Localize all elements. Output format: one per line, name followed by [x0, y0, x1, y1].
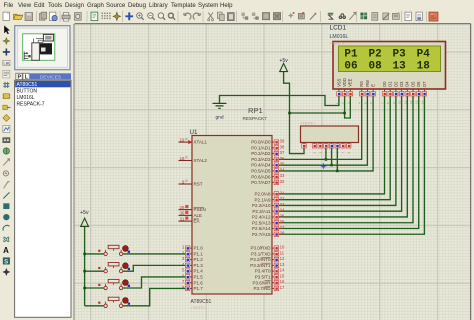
wire: +5v branch to LCD VDD: [290, 96, 345, 113]
svg-text:P1.6: P1.6: [194, 280, 204, 285]
svg-text:18: 18: [180, 156, 185, 161]
push button 1: [85, 253, 104, 255]
svg-text:P2.2/A10: P2.2/A10: [252, 203, 271, 208]
U1 pin 30 (ALE): [179, 214, 193, 216]
U1 pin 14 (P3.4/T0): [272, 270, 274, 272]
svg-text:33: 33: [280, 173, 285, 178]
svg-text:D0: D0: [382, 81, 387, 87]
svg-text:A: A: [3, 246, 9, 255]
svg-text:10: 10: [398, 100, 402, 104]
svg-text:39: 39: [280, 139, 285, 144]
svg-text:P2.5/A13: P2.5/A13: [252, 220, 271, 225]
RP1 pin 2: [314, 143, 316, 144]
svg-text:P3.2/INT0: P3.2/INT0: [250, 257, 271, 262]
svg-text:14: 14: [420, 100, 424, 104]
svg-text:P3.3/INT1: P3.3/INT1: [250, 263, 271, 268]
wire: button 2 to P1 pin: [123, 265, 185, 271]
junctions on +5v button rail: [83, 253, 86, 256]
svg-text:21: 21: [280, 190, 285, 195]
U1 pin 9 (RST): [179, 183, 193, 185]
svg-text:+5v: +5v: [80, 210, 89, 216]
wire: P0.5 to LCD E: [278, 96, 374, 171]
U1 pin 29 (PSEN): [179, 209, 193, 211]
wire: P2.4 to LCD D4: [278, 96, 408, 217]
svg-text:D1: D1: [388, 81, 393, 87]
svg-text:P3.5/T1: P3.5/T1: [255, 275, 271, 280]
sheet origin marker (blue cross): [321, 163, 327, 169]
L button: [23, 73, 29, 79]
wire: P2.6 to LCD D6: [278, 96, 419, 229]
svg-text:VEE: VEE: [348, 78, 353, 86]
wire: +5v rail for buttons: [84, 226, 86, 305]
svg-text:LCD1: LCD1: [330, 25, 347, 32]
wire: branch VDD node to LCD VEE: [345, 96, 351, 118]
svg-text:P0.5/AD5: P0.5/AD5: [251, 169, 271, 174]
wire: gnd to LCD VSS: [220, 96, 339, 106]
U1 pin 18 (XTAL2): [179, 160, 193, 162]
overview: mini MCU: [32, 43, 40, 61]
svg-text:RESPACK7: RESPACK7: [243, 116, 268, 121]
toolbar: undo, redo: [184, 13, 191, 19]
U1 pin 22 (P2.1/A9): [272, 199, 274, 201]
svg-text:D3: D3: [399, 81, 404, 87]
U1 pin 15 (P3.5/T1): [272, 276, 274, 278]
wire: button 1 to P1.1: [123, 253, 185, 255]
svg-text:D6: D6: [416, 81, 421, 87]
push button 4: [85, 305, 104, 307]
RP1 pin 1: [303, 143, 305, 144]
svg-text:P0.6/AD6: P0.6/AD6: [251, 174, 271, 179]
svg-text:P1.7: P1.7: [194, 286, 204, 291]
U1 pin 10 (P3.0/RXD): [272, 247, 274, 249]
svg-text:XTAL1: XTAL1: [194, 140, 208, 145]
svg-text:P3.0/RXD: P3.0/RXD: [250, 246, 271, 251]
svg-text:<TEXT>: <TEXT>: [300, 121, 316, 126]
svg-text:LBL: LBL: [3, 61, 11, 66]
svg-text:27: 27: [280, 225, 285, 230]
svg-text:VSS: VSS: [336, 78, 341, 86]
overview: mini respack + wires: [34, 39, 44, 44]
overview (world view) window: [15, 26, 70, 70]
svg-text:13: 13: [280, 262, 285, 267]
svg-text:11: 11: [280, 250, 285, 255]
svg-text:RESPACK-7: RESPACK-7: [17, 102, 45, 108]
svg-text:BUTTON: BUTTON: [17, 89, 38, 95]
toolbar: cut, copy, paste: [208, 13, 214, 21]
svg-text:D5: D5: [410, 81, 415, 87]
U1 pin 28 (P2.7/A15): [272, 233, 274, 235]
RP1 pin 6: [336, 143, 338, 144]
svg-text:16: 16: [280, 279, 285, 284]
junction: VDD / VEE branch: [343, 112, 346, 115]
toolbar: ARES netlist (orange): [429, 12, 438, 21]
svg-text:P: P: [18, 75, 22, 81]
U1 pin 35 (P0.4/AD4): [272, 164, 274, 166]
U1 pin 1 (P1.0): [190, 247, 192, 249]
overview: mini wiring block (dark): [40, 43, 52, 54]
svg-text:D4: D4: [405, 81, 410, 87]
wire: P2.0 to LCD D0: [278, 96, 385, 194]
RP1 pin 3: [319, 143, 321, 144]
svg-text:15: 15: [280, 273, 285, 278]
svg-text:14: 14: [280, 268, 285, 273]
ground terminal gnd: [213, 103, 227, 108]
svg-text:13: 13: [415, 100, 419, 104]
svg-text:RP1: RP1: [248, 106, 263, 115]
svg-text:E: E: [371, 84, 376, 87]
RP1 pin 8: [348, 143, 350, 144]
svg-text:FileViewEditToolsDesignGraphSo: FileViewEditToolsDesignGraphSourceDebugL…: [4, 2, 234, 9]
svg-text:38: 38: [280, 144, 285, 149]
U1 pin 39 (P0.0/AD0): [272, 141, 274, 143]
svg-text:P0.0/AD0: P0.0/AD0: [251, 140, 271, 145]
wire: P2.2 to LCD D2: [278, 96, 396, 205]
wire: RP1 pin5 pullup tap to RW line: [331, 148, 333, 165]
svg-text:P1.4: P1.4: [194, 269, 204, 274]
svg-text:P1.3: P1.3: [194, 263, 204, 268]
svg-text:RS: RS: [359, 81, 364, 87]
U1 pin 36 (P0.3/AD3): [272, 158, 274, 160]
overview: mini buttons: [24, 52, 28, 60]
svg-text:26: 26: [280, 219, 285, 224]
wire: P0.3 to LCD RS: [278, 96, 362, 159]
toolbar: wire autorouter, search tag: [328, 13, 334, 19]
wire: P0.4 to LCD RW: [278, 96, 368, 165]
U1 pin 37 (P0.2/AD2): [272, 153, 274, 155]
svg-text:P2.1/A9: P2.1/A9: [254, 197, 271, 202]
wire: button 4 to P1 pin: [123, 288, 185, 305]
U1 pin 21 (P2.0/A8): [272, 193, 274, 195]
svg-text:30: 30: [180, 211, 185, 216]
svg-text:P0.4/AD4: P0.4/AD4: [251, 163, 271, 168]
U1 pin 4 (P1.3): [190, 264, 192, 266]
svg-text:S: S: [4, 258, 8, 265]
svg-text:28: 28: [280, 231, 285, 236]
svg-text:P3.1/TXD: P3.1/TXD: [251, 251, 271, 256]
svg-text:22: 22: [280, 196, 285, 201]
LCD screen: [339, 46, 441, 72]
svg-text:35: 35: [280, 162, 285, 167]
svg-text:EA: EA: [194, 219, 200, 224]
svg-text:DEVICES: DEVICES: [40, 74, 61, 80]
svg-text:P2.6/A14: P2.6/A14: [252, 226, 271, 231]
U1 pin 2 (P1.1): [190, 253, 192, 255]
svg-text:29: 29: [180, 205, 185, 210]
svg-text:RST: RST: [194, 182, 203, 187]
svg-text:LM016L: LM016L: [330, 34, 349, 40]
svg-text:17: 17: [280, 285, 285, 290]
RP1 pin 7: [342, 143, 344, 144]
svg-text:P0.3/AD3: P0.3/AD3: [251, 157, 271, 162]
U1 pin 6 (P1.5): [190, 276, 192, 278]
svg-text:P1.0: P1.0: [194, 246, 204, 251]
svg-text:P0.1/AD1: P0.1/AD1: [251, 145, 271, 150]
svg-text:11: 11: [403, 101, 407, 104]
U1 pin 33 (P0.6/AD6): [272, 176, 274, 178]
toolbar: sheet, grid toggle: [91, 12, 98, 21]
microcontroller U1 AT89C51 body: [192, 136, 272, 295]
svg-text:12: 12: [280, 256, 285, 261]
toolbar: [0, 10, 474, 24]
toolbar: design explorer, new sheet, remove sheet, notes: [360, 13, 367, 20]
svg-text:AT89C51: AT89C51: [17, 82, 38, 88]
U1 pin 8 (P1.7): [190, 287, 192, 289]
wire: P2.1 to LCD D1: [278, 96, 391, 200]
svg-text:34: 34: [280, 167, 285, 172]
svg-text:P1.2: P1.2: [194, 257, 204, 262]
U1 pin 23 (P2.2/A10): [272, 204, 274, 206]
U1 pin 31 (EA): [179, 220, 193, 222]
svg-text:P2.0/A8: P2.0/A8: [254, 192, 271, 197]
wire: button 3 to P1 pin: [123, 277, 185, 288]
svg-text:25: 25: [280, 213, 285, 218]
wire: +5v stem down to VDD junction and RP1 common: [284, 72, 304, 154]
U1 pin 38 (P0.1/AD1): [272, 147, 274, 149]
DEVICES header bar: [30, 73, 71, 79]
U1 pin 16 (P3.6/WR): [272, 282, 274, 284]
left tool palette: [4, 26, 10, 35]
toolbar: new, open, save: [3, 12, 9, 21]
svg-text:P0.7/AD7: P0.7/AD7: [251, 180, 271, 185]
U1 pin 5 (P1.4): [190, 270, 192, 272]
svg-text:31: 31: [180, 216, 185, 221]
svg-text:10: 10: [280, 245, 285, 250]
wire: P2.7 to LCD D7: [278, 96, 425, 234]
resistor pack RP1 body: [301, 126, 359, 143]
svg-text:XTAL2: XTAL2: [194, 158, 208, 163]
svg-text:P3.4/T0: P3.4/T0: [255, 269, 271, 274]
svg-text:P3.6/WR: P3.6/WR: [252, 280, 271, 285]
overview: sheet border (green): [23, 34, 55, 61]
push button 2: [85, 270, 104, 272]
svg-text:P2.3/A11: P2.3/A11: [252, 209, 271, 214]
svg-text:37: 37: [280, 150, 285, 155]
svg-text:P2.7/A15: P2.7/A15: [252, 232, 271, 237]
U1 pin 7 (P1.6): [190, 282, 192, 284]
overview: mini LCD: [43, 34, 53, 41]
svg-text:P0.2/AD2: P0.2/AD2: [251, 151, 271, 156]
wire: P2.5 to LCD D5: [278, 96, 414, 223]
svg-text:ALE: ALE: [194, 213, 203, 218]
U1 pin 19 (XTAL1): [179, 141, 193, 143]
svg-text:gnd: gnd: [215, 115, 223, 121]
U1 pin 26 (P2.5/A13): [272, 222, 274, 224]
svg-text:LM016L: LM016L: [17, 95, 35, 101]
toolbar: block copy, move, rotate, delete: [241, 13, 248, 20]
svg-text:VDD: VDD: [342, 78, 347, 87]
svg-text:36: 36: [280, 156, 285, 161]
wire: RP1 pin6 pullup tap to E line: [336, 148, 338, 171]
toolbar: origin marker: [113, 12, 121, 21]
push button 3: [85, 287, 104, 289]
svg-text:24: 24: [280, 208, 285, 213]
svg-text:D7: D7: [422, 81, 427, 87]
U1 pin 17 (P3.7/RD): [272, 287, 274, 289]
U1 pin 25 (P2.4/A12): [272, 216, 274, 218]
U1 pin 12 (P3.2/INT0): [272, 259, 274, 261]
U1 pin 3 (P1.2): [190, 259, 192, 261]
toolbar: bill of materials, ERC: [405, 12, 411, 21]
device list: AT89C51 (selected): [15, 81, 70, 87]
svg-text:P3.7/RD: P3.7/RD: [253, 286, 271, 291]
LCD LM016L body: [333, 42, 446, 90]
RP1 pin 4: [325, 143, 327, 144]
svg-text:PSEN: PSEN: [194, 207, 206, 212]
P button: [16, 73, 22, 79]
svg-text:P2.4/A12: P2.4/A12: [252, 215, 271, 220]
editing canvas with grid: [75, 24, 471, 320]
device list panel: [15, 80, 71, 317]
svg-text:RW: RW: [365, 80, 370, 87]
svg-text:P1.1: P1.1: [194, 251, 204, 256]
svg-text:19: 19: [180, 137, 185, 142]
junction: +5v / VDD branch: [288, 112, 291, 115]
U1 pin 34 (P0.5/AD5): [272, 170, 274, 172]
svg-text:12: 12: [409, 100, 413, 104]
toolbar: pick, make device, packaging: [288, 12, 295, 18]
svg-text:23: 23: [280, 202, 285, 207]
svg-text:P1.5: P1.5: [194, 275, 204, 280]
U1 pin 11 (P3.1/TXD): [272, 253, 274, 255]
wire: RP1 pin4 pullup tap to RS line: [325, 148, 327, 159]
U1 pin 13 (P3.3/INT1): [272, 264, 274, 266]
toolbar: import, export: [39, 12, 46, 20]
U1 pin 24 (P2.3/A11): [272, 210, 274, 212]
RP1 pin 5: [331, 143, 333, 144]
wire: P2.3 to LCD D3: [278, 96, 402, 211]
toolbar: print, preview: [62, 13, 70, 21]
U1 pin 32 (P0.7/AD7): [272, 181, 274, 183]
svg-text:32: 32: [280, 179, 285, 184]
svg-text:D2: D2: [393, 81, 398, 87]
toolbar: pan, zoom in/out/all/area: [125, 12, 133, 20]
svg-text:<TEXT>: <TEXT>: [191, 305, 207, 310]
U1 pin 27 (P2.6/A14): [272, 228, 274, 230]
svg-text:<TEXT>: <TEXT>: [330, 41, 346, 46]
